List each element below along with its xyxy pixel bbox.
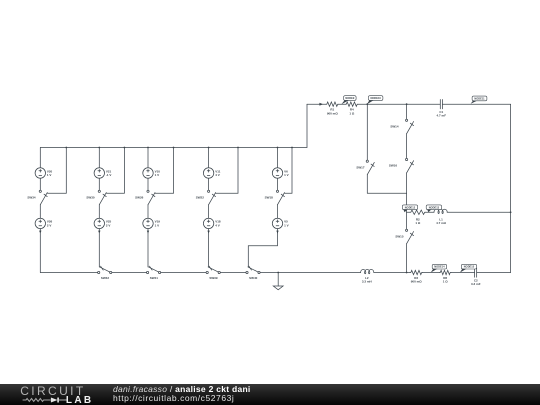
svg-text:SW15: SW15 — [395, 235, 404, 239]
svg-text:1 V: 1 V — [284, 173, 289, 177]
svg-text:SW42: SW42 — [101, 276, 110, 280]
svg-text:NODE9: NODE9 — [345, 96, 354, 100]
svg-text:NODE13: NODE13 — [429, 205, 440, 209]
svg-text:SW18: SW18 — [265, 196, 274, 200]
svg-text:SW16: SW16 — [389, 164, 398, 168]
svg-text:1 V: 1 V — [284, 223, 289, 227]
svg-text:SW30: SW30 — [86, 196, 95, 200]
svg-text:1 V: 1 V — [47, 173, 52, 177]
svg-text:NODE15: NODE15 — [464, 265, 475, 269]
svg-text:-1 V: -1 V — [106, 173, 112, 177]
svg-text:SW40: SW40 — [249, 276, 258, 280]
svg-text:4.7 mH: 4.7 mH — [436, 221, 446, 225]
svg-text:2 V: 2 V — [47, 223, 52, 227]
svg-text:4 V: 4 V — [215, 173, 220, 177]
svg-text:4 V: 4 V — [215, 223, 220, 227]
svg-text:1 Ω: 1 Ω — [415, 221, 421, 225]
svg-text:3.3 mH: 3.3 mH — [362, 280, 372, 284]
svg-text:NODE12: NODE12 — [405, 205, 416, 209]
svg-text:NODE11: NODE11 — [474, 97, 485, 101]
svg-text:2 V: 2 V — [106, 223, 111, 227]
svg-text:4.7 mF: 4.7 mF — [437, 114, 447, 118]
svg-text:SW22: SW22 — [196, 196, 205, 200]
svg-text:SW34: SW34 — [27, 196, 36, 200]
svg-text:SW17: SW17 — [356, 165, 365, 169]
svg-text:NODE10: NODE10 — [370, 96, 381, 100]
svg-text:900 mΩ: 900 mΩ — [411, 280, 423, 284]
svg-text:SW41: SW41 — [150, 276, 159, 280]
svg-text:SW39: SW39 — [209, 276, 218, 280]
svg-text:3.3 mF: 3.3 mF — [471, 282, 481, 286]
svg-text:SW14: SW14 — [390, 125, 399, 129]
svg-text:SW26: SW26 — [135, 196, 144, 200]
svg-text:1 Ω: 1 Ω — [349, 111, 355, 115]
svg-text:1 V: 1 V — [155, 173, 160, 177]
svg-text:NODE14: NODE14 — [434, 265, 445, 269]
svg-text:1 V: 1 V — [155, 223, 160, 227]
svg-text:900 mΩ: 900 mΩ — [327, 111, 339, 115]
svg-text:1 Ω: 1 Ω — [443, 280, 449, 284]
